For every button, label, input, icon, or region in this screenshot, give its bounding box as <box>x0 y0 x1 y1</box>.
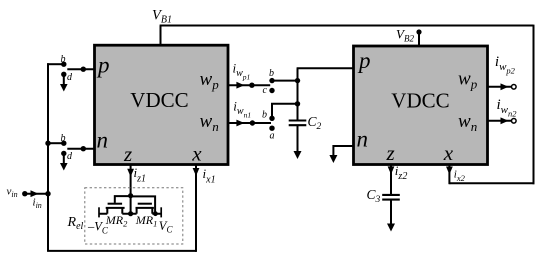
wire vin to rail with current arrow iin <box>24 190 51 197</box>
ground arrow under d (n switch) <box>60 153 68 170</box>
svg-text:z: z <box>123 142 132 166</box>
wire contact b to middle rail <box>272 78 300 83</box>
stub VB2 with node dot <box>416 29 421 46</box>
svg-text:iz1: iz1 <box>134 165 147 185</box>
svg-text:c: c <box>263 85 268 96</box>
svg-text:iwn2: iwn2 <box>497 97 518 119</box>
node contact b of p switch <box>61 54 67 67</box>
svg-text:vin: vin <box>7 186 18 200</box>
svg-text:VB1: VB1 <box>152 7 172 25</box>
wire switch pole to U1 pin n with pivot dot <box>67 146 94 151</box>
node contact a of wn1 switch <box>269 126 274 142</box>
svg-text:b: b <box>61 54 66 65</box>
svg-text:x: x <box>443 141 454 165</box>
label C3 <box>367 187 381 205</box>
current arrow ix2 on x2 wire <box>446 167 453 175</box>
wire wp1 from U1 with current arrow and pivot dot <box>228 82 270 89</box>
svg-text:C2: C2 <box>308 114 322 132</box>
U1 pin label wn <box>200 111 219 134</box>
wire contact b up and over to middle rail <box>272 101 300 118</box>
label iwp2 <box>495 54 516 76</box>
wire wn1 from U1 with current arrow and pivot dot <box>228 120 271 127</box>
label iz1 <box>134 165 147 185</box>
svg-text:d: d <box>67 151 73 162</box>
node vin terminal <box>22 191 27 196</box>
U1 pin label p <box>96 52 110 77</box>
wire stub rail to contact b (p switch) <box>47 63 63 65</box>
node z1 gate junction <box>128 193 133 198</box>
label ix1 <box>203 166 216 186</box>
VDCC block U2 <box>354 46 488 165</box>
junction rail at n switch <box>45 141 50 146</box>
svg-text:VB2: VB2 <box>396 27 414 44</box>
wire z2 from U2 with current arrow <box>388 164 395 195</box>
node contact b of wn1 switch <box>262 110 275 122</box>
label VB1 <box>152 7 172 25</box>
wire middle rail down from p2 wire to C2 <box>297 68 299 120</box>
U1 pin label n <box>97 128 109 153</box>
svg-text:iwp2: iwp2 <box>495 54 516 76</box>
label vin <box>7 186 18 200</box>
capacitor C3 <box>382 195 400 200</box>
svg-text:p: p <box>96 52 110 77</box>
terminal bar VC <box>160 207 162 217</box>
wire wp2 output with current arrow and open terminal <box>488 83 517 90</box>
label -VC <box>87 220 109 236</box>
U2 pin label wp <box>458 69 478 92</box>
U1 pin label z <box>123 142 132 166</box>
svg-text:MR2: MR2 <box>105 213 128 229</box>
ground arrow under C2 <box>294 125 302 159</box>
label iwp1 <box>233 60 251 81</box>
U2 pin label p <box>357 48 371 73</box>
label C2 <box>308 114 322 132</box>
wire top horizontal VB1 to right rail <box>160 25 534 27</box>
svg-text:VDCC: VDCC <box>130 88 188 112</box>
svg-text:iin: iin <box>33 197 42 211</box>
transistor MR2 <box>99 196 131 214</box>
svg-text:b: b <box>61 133 66 144</box>
capacitor C2 <box>289 121 307 126</box>
svg-text:p: p <box>357 48 371 73</box>
svg-text:iwp1: iwp1 <box>233 60 251 81</box>
svg-text:n: n <box>97 128 109 153</box>
wire switch pole to U1 pin p with pivot dot <box>67 67 94 72</box>
wire middle rail to U2 pin p <box>297 67 354 69</box>
U2 pin label wn <box>458 111 477 134</box>
ground arrow at U2 pin n <box>329 146 353 163</box>
node contact d of n switch <box>61 151 73 162</box>
wire bottom return from rail to x1 <box>47 250 196 252</box>
svg-text:b: b <box>262 110 267 121</box>
svg-text:d: d <box>67 72 73 83</box>
node contact b of wp1 switch <box>269 68 275 83</box>
label MR1 <box>135 213 158 229</box>
ground arrow under d (p switch) <box>60 74 68 91</box>
node memristor center source junction <box>128 211 133 216</box>
svg-text:ix1: ix1 <box>203 166 216 186</box>
VDCC block U1 <box>95 45 229 164</box>
label VC <box>159 219 174 235</box>
svg-text:ix2: ix2 <box>454 169 466 184</box>
U2 pin label n <box>357 127 369 152</box>
wire x1 vertical from U1 x terminal with current arrow <box>193 164 200 252</box>
svg-text:n: n <box>357 127 369 152</box>
wire VB1 stub from VDCC1 top <box>160 26 162 46</box>
label iz2 <box>395 163 408 182</box>
node contact c of wp1 switch <box>263 85 275 96</box>
node contact b of n switch <box>61 133 67 146</box>
label Rel <box>67 215 84 232</box>
U1 pin label x <box>191 141 202 165</box>
U2 pin label x <box>443 141 454 165</box>
svg-text:C3: C3 <box>367 187 381 205</box>
wire z1 vertical from U1 z terminal with current arrow <box>127 164 134 214</box>
label MR2 <box>105 213 128 229</box>
svg-text:VDCC: VDCC <box>391 89 449 113</box>
wire wn2 output with current arrow and open terminal <box>488 117 517 124</box>
U2 pin label z <box>386 141 395 165</box>
wire right vertical rail <box>533 25 535 185</box>
svg-text:a: a <box>270 131 275 142</box>
label iin <box>33 197 42 211</box>
terminal bar -VC <box>98 207 100 217</box>
U1 title VDCC <box>130 88 188 112</box>
label VB2 <box>396 27 414 44</box>
transistor MR1 <box>131 196 162 216</box>
svg-text:z: z <box>386 141 395 165</box>
wire stub rail to contact b (n switch) <box>48 142 63 144</box>
node contact d of p switch <box>61 72 73 83</box>
wire left input rail vertical <box>47 63 49 251</box>
svg-text:Rel: Rel <box>67 215 84 232</box>
label iwn2 <box>497 97 518 119</box>
svg-text:x: x <box>191 141 202 165</box>
label ix2 <box>454 169 466 184</box>
label iwn1 <box>233 98 251 119</box>
svg-text:iwn1: iwn1 <box>233 98 251 119</box>
ground arrow under C3 <box>387 200 395 232</box>
svg-text:b: b <box>269 68 274 79</box>
U1 pin label wp <box>200 69 220 92</box>
memristor emulator dashed box Rel <box>85 188 183 244</box>
U2 title VDCC <box>391 89 449 113</box>
wire x2 vertical from VDCC2 x terminal <box>448 164 450 184</box>
svg-text:VC: VC <box>159 219 174 235</box>
wire bottom-right horizontal to x2 <box>449 182 534 184</box>
